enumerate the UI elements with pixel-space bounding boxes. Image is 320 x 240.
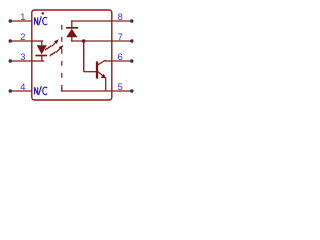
svg-text:6: 6 (118, 52, 123, 62)
pin 2 terminal (9, 39, 13, 43)
pin 4 terminal (9, 89, 13, 93)
photodiode D2: anode lead (71, 37, 73, 41)
light arrow (lower) (50, 48, 61, 56)
wire: base net from photodiode to pin 7 (71, 40, 112, 42)
svg-text:2: 2 (20, 32, 25, 42)
pin 5 wire (112, 90, 131, 92)
svg-text:7: 7 (118, 32, 123, 42)
svg-text:8: 8 (118, 12, 123, 22)
pin 8 terminal (130, 19, 134, 23)
component body U1 (optocoupler package outline) (32, 10, 112, 100)
pin 6 wire (112, 60, 131, 62)
photodiode D2: Vcc rail from pin 8 (71, 20, 112, 22)
pin 5 terminal (130, 89, 134, 93)
wire: base drop (83, 41, 85, 72)
wire: emitter rail to pin 5 (61, 90, 112, 92)
transistor Q1: emitter drop (105, 78, 107, 91)
transistor Q1: collector stub to pin 6 (105, 60, 112, 62)
pin 3 wire (11, 60, 32, 62)
dielectric isolation dashed line (61, 25, 63, 90)
pin 4 name N/C (35, 86, 48, 95)
LED D1: cathode bar (35, 55, 47, 57)
svg-text:3: 3 (20, 52, 25, 62)
transistor Q1: collector diagonal (98, 60, 106, 65)
pin 6 terminal (130, 59, 134, 63)
pin 4 wire (11, 90, 32, 92)
pin 7 terminal (130, 39, 134, 43)
junction at base net (82, 39, 86, 43)
pin 1 terminal (9, 19, 13, 23)
photodiode D2: triangle (66, 29, 77, 38)
svg-text:5: 5 (118, 82, 123, 92)
pin 2 wire (11, 40, 32, 42)
LED D1: cathode stub to pin 3 (32, 60, 45, 62)
svg-text:4: 4 (20, 82, 25, 92)
pin 1 wire (11, 20, 32, 22)
LED D1: cathode lead (41, 56, 43, 62)
photodiode D2: cathode bar (66, 27, 78, 29)
LED D1: anode stub from pin 2 (32, 40, 44, 42)
svg-text:1: 1 (20, 12, 25, 22)
wire: base lead horizontal (84, 71, 97, 73)
light arrow (upper) (45, 42, 56, 50)
pin 7 wire (112, 40, 131, 42)
transistor Q1: emitter arrowhead (101, 74, 106, 79)
pin 8 wire (112, 20, 131, 22)
photodiode D2: cathode lead (71, 21, 73, 28)
pin 3 terminal (9, 59, 13, 63)
pin-1 indicator dot (42, 12, 45, 15)
LED D1: anode lead (41, 41, 43, 45)
dashed line bottom bend (61, 88, 63, 92)
pin 1 name N/C (35, 16, 48, 25)
LED D1: triangle (37, 45, 47, 54)
transistor Q1: base bar (96, 61, 98, 78)
transistor Q1: emitter diagonal (98, 72, 106, 78)
